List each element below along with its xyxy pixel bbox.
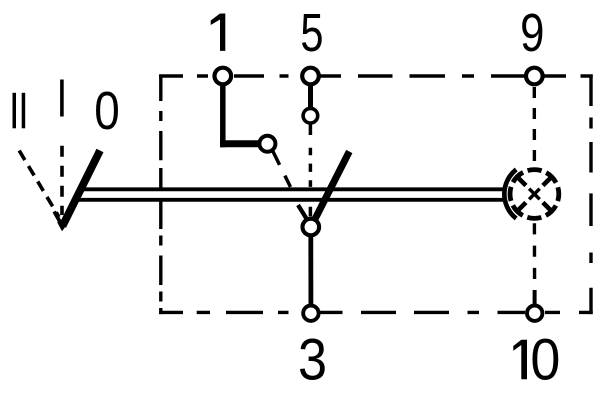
svg-text:5: 5 [300,3,323,64]
svg-text:3: 3 [298,327,327,392]
svg-text:0: 0 [530,327,560,392]
svg-text:9: 9 [520,4,544,63]
svg-text:0: 0 [94,81,120,141]
